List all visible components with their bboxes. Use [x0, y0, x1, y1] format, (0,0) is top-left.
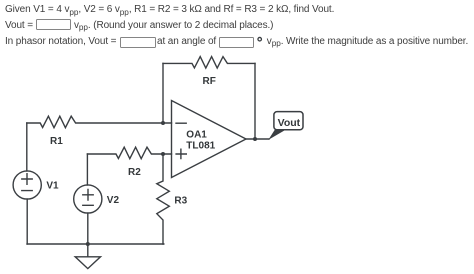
svg-text:R2: R2	[128, 167, 141, 178]
svg-text:TL081: TL081	[186, 141, 215, 152]
svg-text:R1: R1	[50, 136, 63, 147]
svg-text:RF: RF	[203, 76, 216, 87]
svg-text:Vout: Vout	[278, 117, 301, 129]
svg-text:OA1: OA1	[186, 129, 207, 140]
svg-text:V1: V1	[46, 180, 59, 191]
svg-text:V2: V2	[107, 195, 120, 206]
svg-text:R3: R3	[174, 196, 187, 207]
